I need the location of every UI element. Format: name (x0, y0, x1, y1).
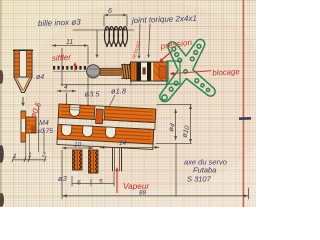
svg-text:x0.75: x0.75 (36, 128, 53, 135)
svg-text:ø3.5: ø3.5 (85, 90, 101, 99)
svg-text:4: 4 (64, 84, 68, 91)
svg-text:Futaba: Futaba (193, 166, 216, 175)
svg-text:1: 1 (28, 152, 32, 159)
svg-text:2: 2 (41, 152, 46, 159)
svg-text:1: 1 (13, 153, 17, 160)
svg-text:5: 5 (99, 179, 103, 186)
svg-text:14: 14 (119, 140, 127, 147)
svg-text:6: 6 (77, 180, 81, 187)
svg-text:bille inox ø3: bille inox ø3 (38, 17, 82, 28)
svg-text:M4: M4 (39, 120, 49, 127)
svg-text:ø1.8: ø1.8 (111, 87, 127, 96)
svg-text:10: 10 (74, 142, 82, 149)
svg-text:Vapeur: Vapeur (123, 182, 149, 191)
svg-text:blocage: blocage (212, 67, 240, 77)
svg-text:11: 11 (66, 39, 73, 46)
svg-text:S 3107: S 3107 (187, 175, 212, 184)
svg-text:siffler: siffler (52, 53, 72, 63)
svg-text:ø4: ø4 (36, 74, 44, 81)
svg-text:6: 6 (108, 8, 112, 15)
svg-text:ø3: ø3 (58, 174, 68, 183)
